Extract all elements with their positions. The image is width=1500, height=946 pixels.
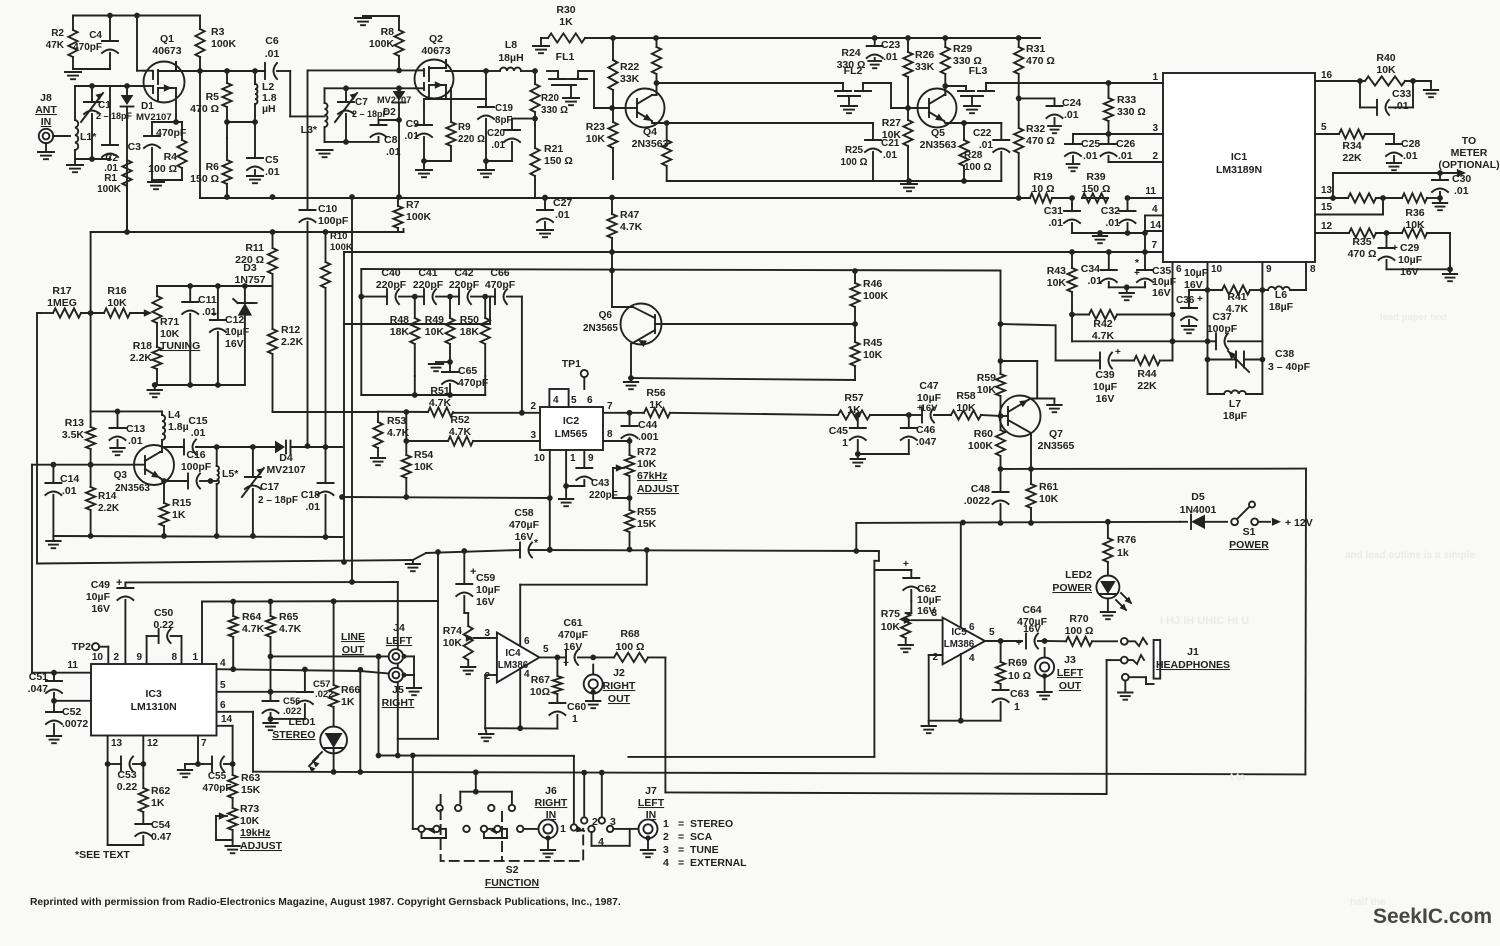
- resistor R13: [86, 427, 95, 449]
- svg-text:40673: 40673: [421, 45, 450, 57]
- svg-text:J3: J3: [1064, 654, 1076, 666]
- svg-text:8: 8: [171, 652, 177, 663]
- ground under J3: [1037, 691, 1051, 693]
- zener rail: [157, 285, 273, 287]
- svg-text:4: 4: [598, 836, 604, 848]
- svg-text:Q6: Q6: [599, 310, 613, 321]
- svg-text:16V: 16V: [225, 338, 244, 350]
- wire vert 438: [437, 552, 439, 739]
- svg-text:OUT: OUT: [342, 644, 365, 656]
- svg-text:R27: R27: [882, 117, 901, 129]
- IC2 top notch: [549, 389, 568, 407]
- wire line 469: [1001, 468, 1307, 470]
- resistor R42: [1089, 310, 1117, 319]
- svg-text:R29: R29: [953, 43, 972, 55]
- svg-text:R5: R5: [206, 91, 220, 103]
- svg-text:33K: 33K: [915, 61, 935, 73]
- bus pin11 line: [200, 197, 1030, 199]
- svg-text:R55: R55: [637, 506, 656, 518]
- svg-text:R61: R61: [1039, 481, 1058, 493]
- svg-text:R65: R65: [279, 611, 298, 623]
- svg-text:5: 5: [989, 627, 995, 638]
- capacitor C5: [247, 157, 263, 159]
- ground under J7: [641, 849, 655, 851]
- svg-text:8: 8: [1310, 264, 1316, 275]
- wire J3 node: [1045, 640, 1066, 642]
- svg-text:+: +: [1134, 268, 1140, 279]
- resistor R51: [428, 407, 453, 416]
- svg-text:2: 2: [1152, 151, 1158, 162]
- svg-text:C63: C63: [1010, 688, 1029, 700]
- wire IC5 pin2: [929, 654, 943, 656]
- svg-text:1: 1: [192, 652, 198, 663]
- ground IC5: [922, 725, 936, 727]
- ground under R53: [371, 457, 385, 459]
- resistor R53: [373, 422, 382, 448]
- svg-text:C23: C23: [881, 39, 900, 51]
- capacitor C53: [120, 757, 122, 772]
- resistor R17: [53, 308, 81, 317]
- osc ground rail: [53, 536, 342, 537]
- svg-text:R32: R32: [1026, 123, 1045, 135]
- wire R57 line: [670, 413, 838, 415]
- svg-text:R53: R53: [387, 415, 406, 427]
- svg-text:15: 15: [1321, 202, 1333, 213]
- wire IC5 pin5 out: [985, 640, 1022, 642]
- svg-text:C26: C26: [1116, 138, 1135, 150]
- wire C9 top: [423, 99, 425, 106]
- wire J1 vert: [1106, 660, 1108, 794]
- svg-text:10K: 10K: [863, 349, 883, 361]
- ground C31 C32: [1093, 235, 1107, 237]
- transistor Q4 2N3563: [626, 89, 665, 128]
- svg-text:Reprinted with permission from: Reprinted with permission from Radio-Ele…: [30, 897, 621, 908]
- svg-text:R7: R7: [406, 199, 420, 211]
- svg-text:C42: C42: [454, 267, 473, 279]
- svg-text:LM386: LM386: [944, 639, 975, 650]
- wire IC4 pin3: [490, 637, 497, 639]
- svg-text:D3: D3: [243, 262, 257, 274]
- svg-text:=: =: [678, 844, 684, 856]
- ground C9 R9: [416, 169, 432, 171]
- svg-text:5: 5: [1321, 122, 1327, 133]
- svg-text:R64: R64: [242, 611, 261, 623]
- svg-text:R72: R72: [637, 446, 656, 458]
- resistor R19: [1030, 193, 1052, 202]
- ground under C28: [1387, 162, 1401, 164]
- ground pin7 IC3: [185, 763, 198, 765]
- capacitor C39 line: [1055, 325, 1057, 360]
- svg-text:1N757: 1N757: [235, 274, 266, 286]
- svg-text:*: *: [534, 537, 539, 549]
- S2 contact 4: [607, 826, 613, 832]
- wire FL1 to Q4 base: [593, 71, 595, 108]
- svg-text:METER: METER: [1451, 147, 1488, 159]
- resistor R7: [393, 206, 402, 228]
- svg-text:6: 6: [220, 700, 226, 711]
- resistor R23: [608, 122, 617, 148]
- resistor R47: [607, 214, 616, 238]
- svg-text:7: 7: [201, 738, 207, 749]
- svg-text:C18: C18: [301, 489, 320, 501]
- capacitor C27: [537, 209, 553, 211]
- wire Q2 out: [445, 60, 447, 68]
- svg-text:R11: R11: [245, 242, 264, 254]
- svg-text:L1*: L1*: [80, 131, 97, 143]
- svg-text:330 Ω: 330 Ω: [541, 105, 568, 116]
- svg-text:220pF: 220pF: [589, 490, 618, 501]
- svg-text:FL3: FL3: [969, 65, 988, 77]
- svg-text:STEREO: STEREO: [690, 818, 733, 830]
- svg-text:C50: C50: [154, 607, 173, 619]
- svg-text:R44: R44: [1137, 368, 1156, 380]
- pin5 wire IC3: [217, 691, 296, 693]
- LED LED2 POWER: [1096, 576, 1119, 599]
- svg-text:2N3563: 2N3563: [632, 138, 669, 150]
- svg-text:.01: .01: [1454, 185, 1469, 197]
- svg-text:220pF: 220pF: [376, 279, 407, 291]
- capacitor C42: [458, 289, 460, 304]
- wire Q2 source line: [445, 93, 447, 99]
- svg-text:Q4: Q4: [643, 126, 657, 138]
- svg-text:C45: C45: [829, 425, 848, 437]
- ground under LED2: [1107, 599, 1109, 611]
- svg-text:C36: C36: [1176, 295, 1195, 306]
- svg-text:15K: 15K: [241, 784, 261, 796]
- connector J5 RIGHT: [389, 668, 403, 682]
- svg-text:C9: C9: [406, 118, 420, 130]
- capacitor C62: [903, 577, 919, 579]
- svg-text:.01: .01: [491, 140, 505, 151]
- svg-text:2: 2: [113, 652, 119, 663]
- svg-text:100K: 100K: [863, 290, 889, 302]
- svg-text:HEADPHONES: HEADPHONES: [1156, 659, 1230, 671]
- svg-text:R73: R73: [240, 803, 259, 815]
- capacitor C57: [297, 691, 313, 693]
- capacitor C11: [182, 301, 198, 303]
- svg-text:ADJUST: ADJUST: [240, 840, 283, 852]
- ground below J8: [38, 151, 54, 153]
- svg-text:16V: 16V: [1400, 266, 1419, 278]
- svg-text:R16: R16: [107, 285, 126, 297]
- svg-text:C40: C40: [381, 267, 400, 279]
- svg-text:2 – 18pF: 2 – 18pF: [258, 495, 298, 506]
- svg-text:C25: C25: [1081, 138, 1100, 150]
- svg-text:LINE: LINE: [341, 631, 365, 643]
- opamp IC5 LM386: [943, 618, 985, 665]
- svg-text:FL2: FL2: [844, 65, 863, 77]
- wire C62 connector: [878, 551, 880, 561]
- bus J1 line: [665, 792, 1106, 794]
- potentiometer R73 19kHz: [228, 808, 237, 830]
- svg-text:Q2: Q2: [429, 33, 443, 45]
- wire bracket to pin7 bus: [1144, 233, 1146, 252]
- svg-text:R71: R71: [160, 316, 179, 328]
- svg-text:13: 13: [1321, 185, 1333, 196]
- svg-text:10K: 10K: [956, 402, 976, 414]
- svg-text:C60: C60: [567, 701, 586, 713]
- ground under C52: [47, 735, 61, 737]
- capacitor C50 bracket: [146, 636, 148, 664]
- inductor L6: [1268, 286, 1290, 290]
- svg-text:2: 2: [592, 816, 598, 828]
- wire IC4 pin2: [485, 674, 497, 676]
- svg-text:150 Ω: 150 Ω: [190, 173, 219, 185]
- svg-text:.01: .01: [1394, 100, 1409, 112]
- wire Q6 base right: [662, 323, 856, 325]
- svg-text:10: 10: [534, 453, 546, 464]
- wire D2 to C8 jog: [379, 119, 400, 121]
- capacitor C19: [478, 106, 494, 108]
- svg-text:C59: C59: [476, 572, 495, 584]
- connector J3 LEFT OUT: [1035, 658, 1054, 677]
- resistor R45: [850, 342, 859, 366]
- capacitor C46: [901, 427, 917, 429]
- capacitor C64 series: [1025, 634, 1027, 649]
- resistor R35: [1349, 228, 1376, 237]
- S2 wiper1: [412, 756, 414, 829]
- capacitor C65: [442, 371, 458, 373]
- svg-text:100pF: 100pF: [181, 461, 212, 473]
- svg-text:+: +: [917, 403, 923, 414]
- svg-text:+: +: [1016, 638, 1022, 649]
- bus T line: [426, 550, 520, 553]
- svg-text:R42: R42: [1093, 318, 1112, 330]
- svg-text:R62: R62: [151, 785, 170, 797]
- svg-text:10 Ω: 10 Ω: [1008, 670, 1031, 682]
- svg-text:C7: C7: [355, 97, 368, 108]
- svg-text:C55: C55: [208, 771, 227, 782]
- capacitor C22: [993, 139, 1009, 141]
- svg-text:.001: .001: [638, 431, 659, 443]
- svg-text:R45: R45: [863, 337, 882, 349]
- pin7 wire IC2: [603, 412, 630, 414]
- wire L8 down to R20: [534, 71, 536, 84]
- wire box right edge: [1304, 469, 1307, 775]
- svg-text:C41: C41: [418, 267, 437, 279]
- ground below C3 R4: [148, 181, 164, 183]
- resistor R31: [1014, 47, 1023, 74]
- capacitor C60: [549, 702, 565, 704]
- resistor R8: [394, 30, 403, 56]
- svg-text:J6: J6: [545, 785, 557, 797]
- svg-text:100 Ω: 100 Ω: [1065, 625, 1094, 637]
- capacitor C43: [576, 467, 592, 469]
- svg-text:R15: R15: [172, 497, 191, 509]
- svg-text:150 Ω: 150 Ω: [544, 155, 573, 167]
- filter FL2: [842, 83, 844, 91]
- wire vert 397.8: [397, 582, 399, 739]
- zener D3 1N757: [238, 303, 252, 316]
- svg-text:2N3563: 2N3563: [115, 483, 150, 494]
- pin2 wire IC2: [453, 412, 540, 414]
- svg-text:µH: µH: [262, 103, 276, 115]
- resistor R68: [614, 653, 648, 662]
- svg-text:470µF: 470µF: [558, 629, 589, 641]
- svg-text:1K: 1K: [341, 696, 355, 708]
- S2 wiper3: [577, 829, 584, 831]
- svg-text:R6: R6: [206, 161, 220, 173]
- svg-text:10µF: 10µF: [1398, 254, 1423, 266]
- svg-text:R14: R14: [98, 491, 117, 502]
- capacitor C33: [1376, 100, 1378, 115]
- capacitor C2: [102, 144, 118, 146]
- svg-text:1: 1: [572, 713, 578, 725]
- svg-text:7: 7: [1151, 240, 1157, 251]
- svg-text:TP1: TP1: [562, 358, 581, 370]
- svg-text:C53: C53: [117, 769, 136, 781]
- wire IC4 pin5 out: [539, 656, 566, 658]
- svg-text:14: 14: [221, 714, 233, 725]
- svg-text:C8: C8: [384, 134, 398, 146]
- capacitor C9: [416, 124, 432, 126]
- svg-text:67kHz: 67kHz: [637, 470, 667, 482]
- svg-text:10µF: 10µF: [225, 326, 250, 338]
- svg-text:15K: 15K: [637, 518, 657, 530]
- wire Q7 collector leg: [1036, 361, 1038, 399]
- svg-text:16V: 16V: [476, 596, 495, 608]
- svg-text:R41: R41: [1227, 291, 1246, 303]
- svg-text:C10: C10: [318, 203, 337, 215]
- resistor R32: [1014, 128, 1023, 153]
- ground J4 J5: [407, 687, 421, 689]
- resistor R37 unlabeled: [1348, 193, 1376, 202]
- svg-text:10µF: 10µF: [86, 591, 111, 603]
- svg-text:C20: C20: [487, 128, 506, 139]
- bus B line: [628, 756, 874, 758]
- svg-text:C64: C64: [1022, 604, 1041, 616]
- svg-text:R52: R52: [450, 414, 469, 426]
- svg-text:D2: D2: [383, 107, 396, 118]
- ground L1/C1: [67, 164, 83, 166]
- pin1 stub IC2: [565, 450, 567, 486]
- svg-text:C15: C15: [188, 415, 207, 427]
- IC IC2 LM565 box: [540, 407, 603, 450]
- S2 mid contacts: [463, 826, 469, 832]
- svg-text:R31: R31: [1026, 43, 1045, 55]
- svg-text:+ 12V: + 12V: [1285, 517, 1313, 529]
- svg-text:C38: C38: [1275, 348, 1294, 360]
- svg-text:4: 4: [220, 658, 226, 669]
- svg-text:10K: 10K: [443, 637, 463, 649]
- svg-text:10 Ω: 10 Ω: [1031, 183, 1054, 195]
- inductor L2: [255, 84, 258, 104]
- svg-text:R13: R13: [65, 417, 84, 429]
- svg-text:3: 3: [663, 844, 669, 856]
- svg-text:MV2107: MV2107: [377, 95, 411, 105]
- svg-text:10K: 10K: [637, 458, 657, 470]
- svg-text:+: +: [903, 559, 909, 570]
- svg-text:C17: C17: [260, 481, 279, 493]
- svg-text:R76: R76: [1117, 534, 1136, 546]
- svg-text:R56: R56: [646, 387, 665, 399]
- filter cap row wire: [361, 296, 387, 298]
- resistor R33: [1104, 98, 1113, 121]
- ground C36: [1182, 325, 1196, 327]
- svg-text:2.2K: 2.2K: [98, 503, 120, 514]
- svg-text:8pF: 8pF: [495, 115, 512, 126]
- svg-text:C33: C33: [1392, 88, 1411, 100]
- resistor R25: [662, 140, 671, 166]
- svg-text:2N3563: 2N3563: [920, 139, 957, 151]
- ground osc rail: [46, 540, 60, 542]
- ground pin1 IC2: [565, 486, 567, 497]
- svg-text:R66: R66: [341, 684, 360, 696]
- connector J6 RIGHT IN: [539, 819, 558, 838]
- svg-text:R75: R75: [881, 608, 900, 620]
- resistor R63: [228, 775, 237, 798]
- svg-text:FL1: FL1: [556, 51, 575, 63]
- svg-text:R22: R22: [620, 61, 639, 73]
- svg-text:10K: 10K: [1047, 277, 1067, 289]
- svg-text:R17: R17: [52, 285, 71, 297]
- svg-text:R69: R69: [1008, 657, 1027, 669]
- wire Q3 base left: [53, 464, 90, 466]
- svg-text:LM1310N: LM1310N: [131, 701, 177, 713]
- svg-text:R4: R4: [164, 151, 178, 163]
- ground C34 C35: [1120, 292, 1134, 294]
- svg-text:TUNING: TUNING: [160, 340, 200, 352]
- svg-text:C65: C65: [458, 365, 477, 377]
- svg-text:D4: D4: [279, 452, 293, 464]
- svg-text:10Ω: 10Ω: [530, 686, 550, 698]
- svg-text:4: 4: [553, 395, 559, 406]
- switch S1 POWER: [1231, 518, 1238, 525]
- ground under C25: [1067, 163, 1080, 165]
- svg-text:R10: R10: [330, 231, 347, 242]
- wire pin1: [1109, 82, 1164, 84]
- resistor R50: [481, 318, 490, 344]
- svg-text:10K: 10K: [425, 326, 445, 338]
- wire Q5 emitter line: [945, 122, 964, 124]
- filter FL1: [547, 70, 558, 72]
- capacitor C52: [46, 711, 62, 713]
- svg-text:C46: C46: [916, 424, 935, 436]
- testpoint TP1: [583, 377, 585, 389]
- svg-text:R36: R36: [1405, 207, 1424, 219]
- capacitor C12: [210, 319, 226, 321]
- wire vert 352: [351, 196, 353, 582]
- svg-text:7: 7: [607, 401, 613, 412]
- S2 upper contacts: [436, 805, 442, 811]
- svg-text:.047: .047: [916, 436, 937, 448]
- svg-text:R1: R1: [104, 173, 117, 184]
- svg-text:10K: 10K: [881, 621, 901, 633]
- pin11 wire IC3: [32, 672, 91, 674]
- testpoint TP2: [92, 643, 99, 650]
- wire IC3 pin1 up: [201, 602, 203, 665]
- svg-text:10K: 10K: [882, 129, 902, 141]
- wire top rail: [73, 15, 200, 17]
- resistor R52: [448, 436, 473, 445]
- svg-text:100K: 100K: [97, 184, 122, 195]
- svg-text:and lead outline is a simple: and lead outline is a simple: [1345, 550, 1475, 561]
- wire J1 sleeve gnd: [1124, 681, 1126, 691]
- bus box bottom line: [253, 772, 1305, 775]
- svg-text:22K: 22K: [1342, 152, 1362, 164]
- potentiometer R75: [901, 613, 910, 638]
- svg-text:40673: 40673: [152, 45, 181, 57]
- capacitor C50: [158, 629, 160, 643]
- svg-text:C39: C39: [1095, 369, 1114, 381]
- svg-text:1K: 1K: [559, 16, 573, 28]
- svg-text:TP2: TP2: [72, 641, 91, 653]
- svg-text:9: 9: [1266, 264, 1272, 275]
- svg-text:18K: 18K: [460, 326, 480, 338]
- svg-text:2.2K: 2.2K: [281, 336, 304, 348]
- svg-text:C31: C31: [1044, 205, 1063, 217]
- potentiometer R72 67kHz: [625, 455, 634, 476]
